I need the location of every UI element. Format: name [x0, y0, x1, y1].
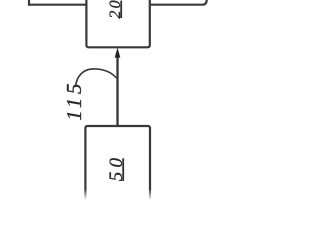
- wire (top-left, enters from top edge then runs right into box 20): [29, 0, 87, 5]
- arrowhead (pointing up into box 20): [115, 48, 121, 58]
- label 50 underline: [122, 158, 124, 181]
- wire (vertical connector from box 50 up to box 20): [116, 52, 118, 127]
- box 20 (top box, cropped at top edge): [86, 0, 149, 47]
- box 50 (bottom box, cropped at bottom edge): [85, 126, 150, 210]
- wire (top-right, leaves box 20 and curves up out of top edge): [149, 0, 207, 5]
- label 20 underline: [120, 1, 122, 18]
- leader line for 115 (curved): [76, 69, 117, 86]
- svg-text:115: 115: [62, 80, 86, 121]
